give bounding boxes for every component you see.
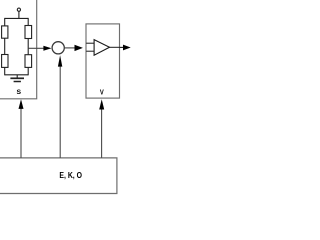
arrowhead into sensor block xyxy=(19,99,24,109)
arrowhead output xyxy=(123,45,131,51)
resistor R1 xyxy=(2,26,8,38)
resistor R3 xyxy=(2,55,8,68)
amplifier block V xyxy=(86,24,120,98)
wire stem from terminal xyxy=(18,11,20,18)
arrowhead into summing junction xyxy=(43,46,51,51)
output wire xyxy=(120,46,124,48)
wire controller to amplifier xyxy=(101,109,103,158)
op-amp input lead lower xyxy=(86,50,94,52)
wire bridge output tap xyxy=(28,47,44,49)
wire right branch upper xyxy=(27,18,29,26)
wire left branch upper xyxy=(4,18,6,26)
arrowhead toward amplifier block xyxy=(75,45,83,51)
op-amp U1 triangle xyxy=(94,40,109,56)
op-amp output lead xyxy=(110,46,120,48)
summing junction xyxy=(52,42,64,54)
svg-text:E, K, O: E, K, O xyxy=(59,171,82,180)
svg-text:S: S xyxy=(17,89,22,96)
sensor block S (border, cropped at top-left) xyxy=(0,0,37,99)
wire top bus xyxy=(5,17,29,19)
wire bottom bus xyxy=(5,74,29,76)
arrowhead into summing junction from below xyxy=(58,55,62,66)
arrowhead into amplifier block from below xyxy=(99,99,104,109)
op-amp input lead upper xyxy=(86,42,94,44)
wire right branch middle xyxy=(27,39,29,56)
resistor R4 xyxy=(25,55,32,68)
wire controller to sensor xyxy=(20,108,22,158)
svg-text:V: V xyxy=(100,90,104,97)
wire left branch lower xyxy=(4,67,6,75)
resistor R2 xyxy=(25,26,32,39)
wire right branch lower xyxy=(27,67,29,75)
wire summing junction to amplifier xyxy=(64,47,75,49)
controller block E,K,O (border, cropped at left) xyxy=(0,158,117,194)
wire controller to summing junction xyxy=(59,66,61,158)
wire left branch middle xyxy=(4,38,6,55)
terminal circle xyxy=(17,8,20,11)
ground xyxy=(10,75,24,82)
